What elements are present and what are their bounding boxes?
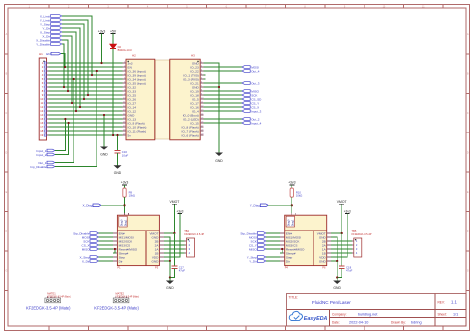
- net flag CS_Y: [242, 101, 259, 105]
- junction 5v: [112, 134, 114, 136]
- wire +3v3 to R10: [291, 185, 293, 188]
- net flag Out_2: [242, 117, 260, 121]
- wire motor 1 X: [164, 240, 185, 242]
- svg-text:1.1: 1.1: [451, 300, 457, 305]
- svg-text:X_Dir: X_Dir: [82, 259, 90, 263]
- svg-text:Out_3: Out_3: [251, 81, 260, 85]
- ground module right: [215, 153, 223, 164]
- svg-text:Diag0: Diag0: [119, 219, 123, 226]
- wire motor 1 Y: [331, 240, 352, 242]
- wire C16 to gnd: [117, 153, 119, 165]
- ground Y: [333, 278, 341, 291]
- svg-text:P4: P4: [285, 266, 289, 270]
- terminal block TB5: [352, 229, 372, 257]
- net flag Y_Step: [40, 22, 62, 26]
- junction C16: [116, 134, 118, 136]
- connector H1: [39, 52, 49, 140]
- header H3 (ESP32 right): [170, 54, 204, 140]
- wire MISO X: [99, 248, 113, 250]
- net flag X_Dir X: [82, 259, 99, 263]
- svg-text:B340A-13-F: B340A-13-F: [118, 48, 133, 52]
- net flag SCK: [242, 93, 257, 97]
- svg-text:KF2EDGK-3.5-4P: KF2EDGK-3.5-4P: [352, 232, 372, 236]
- wire Y_Dir Y: [266, 260, 280, 262]
- svg-text:GND: GND: [319, 259, 327, 263]
- net flag X_Step: [40, 30, 62, 34]
- wire Stp_Disable X: [99, 232, 113, 234]
- svg-text:GND: GND: [152, 259, 160, 263]
- svg-text:5v: 5v: [128, 133, 132, 137]
- wire H3 pin10 to flag CS_SD: [204, 98, 242, 100]
- ground C16: [114, 165, 122, 175]
- wire C16 to row19: [117, 135, 119, 151]
- wire VMOT to cap X: [173, 233, 175, 266]
- net flag Y_Disable: [36, 42, 62, 46]
- svg-text:buildlog.net: buildlog.net: [358, 313, 378, 317]
- wire reset-sleep tie Y: [280, 249, 282, 253]
- net flag Inp_Disable: [30, 165, 54, 169]
- svg-text:Date:: Date:: [332, 321, 340, 325]
- net flag Y_Limit: [40, 18, 62, 22]
- svg-text:VMOT: VMOT: [337, 200, 347, 204]
- net flag CS_X X: [82, 243, 99, 247]
- wire Input_1 riser: [55, 119, 66, 151]
- svg-text:H2: H2: [132, 54, 136, 58]
- wire Input_2 riser: [55, 123, 69, 155]
- wire H3 pin3 to flag Out_4: [204, 70, 242, 72]
- junction EN: [64, 66, 66, 68]
- connector MATE2 KF2EDGK: [113, 292, 139, 303]
- wire +5V to diode: [112, 34, 114, 45]
- wire motor 3 X: [164, 248, 185, 250]
- svg-text:10uF: 10uF: [122, 153, 129, 157]
- wire Stp_Disable Y: [266, 232, 280, 234]
- junction Y_Step: [83, 98, 85, 100]
- svg-text:VMOT: VMOT: [170, 200, 180, 204]
- net flag MOSI: [242, 65, 259, 69]
- svg-text:2022-04-10: 2022-04-10: [349, 321, 368, 325]
- net flag Input_1: [36, 149, 54, 153]
- wire MOSI Y: [266, 236, 280, 238]
- svg-text:TITLE:: TITLE:: [289, 296, 299, 300]
- net flag Y_Dir: [42, 26, 61, 30]
- junction X_Dir: [71, 102, 73, 104]
- wire X_Limit to bus: [62, 16, 92, 75]
- net flag MOSI X: [82, 235, 99, 239]
- net flag SCK X: [83, 239, 98, 243]
- junction X_Diag: [123, 204, 125, 206]
- wire H3 pin8 to flag MISO: [204, 90, 242, 92]
- title block: [287, 294, 467, 327]
- wire Out_1 riser: [55, 79, 74, 163]
- svg-text:Diag1: Diag1: [291, 219, 295, 226]
- svg-text:GND: GND: [114, 171, 122, 175]
- stepper driver P5: [280, 213, 331, 270]
- junction reset Y: [281, 248, 283, 250]
- junction GND row7: [218, 86, 220, 88]
- svg-text:10kΩ: 10kΩ: [296, 194, 302, 198]
- wire VMOT X: [164, 204, 175, 233]
- wire GND pins X: [164, 237, 170, 261]
- net flag Input_4: [242, 121, 262, 125]
- wire R9 to Diag0: [124, 197, 126, 213]
- svg-text:D: D: [467, 151, 469, 154]
- capacitor C18 47uF: [339, 266, 353, 273]
- wire X_Disable to bus: [62, 40, 68, 91]
- junction VMOT X: [173, 232, 175, 234]
- net flag CS_X: [242, 105, 259, 109]
- svg-text:FluidNC Pen/Laser: FluidNC Pen/Laser: [312, 300, 351, 305]
- net flag MISO X: [82, 247, 99, 251]
- wire X_Diag: [101, 204, 125, 206]
- svg-text:C: C: [6, 112, 8, 115]
- wire X_Dir X: [99, 260, 113, 262]
- power flag VMOT Y: [337, 200, 347, 204]
- junction Input_2: [68, 122, 70, 124]
- svg-text:GND: GND: [215, 159, 223, 163]
- wire Y_Diag: [268, 204, 292, 206]
- wire CS_Y Y: [266, 244, 280, 246]
- net flag SCK Y: [251, 239, 266, 243]
- junction Inp_Disable: [96, 70, 98, 72]
- svg-text:G: G: [5, 270, 7, 273]
- junction gnd Y: [336, 276, 338, 278]
- junction X_Limit: [91, 74, 93, 76]
- resistor R10 10k: [290, 188, 302, 198]
- net flag X_Disable: [36, 38, 62, 42]
- wire H3 pin2 to flag MOSI: [204, 66, 242, 68]
- svg-text:C: C: [467, 112, 469, 115]
- net flag Y_Dir Y: [249, 259, 266, 263]
- svg-text:KF2EDGK-3.5-4P (Mate): KF2EDGK-3.5-4P (Mate): [94, 306, 139, 311]
- svg-text:+3v3: +3v3: [288, 181, 296, 185]
- svg-text:1/1: 1/1: [453, 313, 458, 317]
- wire Y_Step Y: [266, 256, 280, 258]
- wire GND down Y: [336, 261, 338, 278]
- net flag Stp_Disable Y: [240, 231, 265, 235]
- svg-text:Input_2: Input_2: [36, 153, 46, 157]
- wire IO_1 TX0 stub: [204, 74, 206, 76]
- wire EN to row2: [61, 54, 65, 67]
- wire H3 pin6 to flag Out_3: [204, 82, 242, 84]
- wire X_Step to bus: [62, 32, 76, 111]
- wire GND H3 pin1 pin7: [204, 63, 219, 153]
- EasyEDA logo: [289, 311, 327, 322]
- wire VDD Y: [331, 214, 347, 257]
- wire SCK X: [99, 240, 113, 242]
- net flag Y_Diag: [250, 204, 268, 208]
- svg-text:Sheet:: Sheet:: [438, 312, 447, 316]
- svg-text:Drawn By:: Drawn By:: [391, 321, 406, 325]
- wire X_Dir to bus: [62, 36, 72, 103]
- junction +3v3: [100, 62, 102, 64]
- wire bus H1 to H2 rows 1-19: [49, 63, 123, 135]
- svg-text:MISO: MISO: [249, 247, 257, 251]
- svg-text:+3v3: +3v3: [344, 209, 351, 213]
- net flag X_Diag: [83, 204, 101, 208]
- svg-text:Y_Diag: Y_Diag: [250, 204, 260, 208]
- net flag Stp_Disable X: [73, 231, 98, 235]
- svg-text:GND: GND: [166, 286, 174, 290]
- junction Out_1: [73, 78, 75, 80]
- wire motor 3 Y: [331, 248, 352, 250]
- svg-text:Y_Dir: Y_Dir: [249, 259, 257, 263]
- net flag Out_3: [242, 81, 260, 85]
- junction GND row14: [103, 114, 105, 116]
- svg-text:+5V: +5V: [110, 29, 117, 33]
- module middle strip: [155, 60, 169, 139]
- wire H3 pin13 to flag Input_3: [204, 110, 242, 112]
- net flag Y_Step Y: [247, 255, 266, 259]
- wire +3v3 to R9: [124, 185, 126, 188]
- svg-text:EasyEDA: EasyEDA: [304, 316, 328, 322]
- wire H3 pin16 to flag Input_4: [204, 122, 242, 124]
- net flag Out_1: [38, 161, 55, 165]
- svg-text:KF2EDGK-3.5-4P: KF2EDGK-3.5-4P: [184, 232, 204, 236]
- svg-text:Y_Disable: Y_Disable: [36, 42, 50, 46]
- wire motor 2 Y: [331, 244, 352, 246]
- net flag CS_Y Y: [249, 243, 266, 247]
- net flag Input_2: [36, 153, 54, 157]
- stepper driver P2: [113, 213, 164, 270]
- svg-text:Inp_Disable: Inp_Disable: [30, 165, 46, 169]
- svg-text:H3: H3: [191, 54, 195, 58]
- ground X: [166, 278, 174, 291]
- wire VMOT Y: [331, 204, 342, 233]
- svg-text:G: G: [467, 270, 469, 273]
- junction GND Y: [336, 260, 338, 262]
- junction VMOT Y: [341, 232, 343, 234]
- svg-text:Dir: Dir: [286, 259, 290, 263]
- terminal block TB4: [184, 229, 204, 257]
- net flag MISO: [242, 89, 260, 93]
- junction Input_1: [64, 118, 66, 120]
- wire Inp_Disable riser: [55, 71, 97, 167]
- svg-text:X_Diag: X_Diag: [83, 204, 93, 208]
- svg-text:P1: P1: [117, 266, 121, 270]
- junction Y_Dir: [79, 106, 81, 108]
- power flag +3v3 X: [121, 181, 129, 185]
- svg-text:EN: EN: [46, 52, 50, 56]
- wire Y_Dir to bus: [62, 28, 80, 107]
- svg-text:Diag0: Diag0: [287, 219, 291, 226]
- net flag MISO Y: [249, 247, 266, 251]
- junction X_Disable: [67, 90, 69, 92]
- svg-text:MISO: MISO: [82, 247, 90, 251]
- power flag +3v3 Y: [288, 181, 296, 185]
- svg-text:GND: GND: [333, 286, 341, 290]
- wire Y_Limit to bus: [62, 20, 88, 95]
- net flag X_Limit: [40, 14, 62, 18]
- junction X_Step: [75, 110, 77, 112]
- wire GND down X: [169, 261, 171, 278]
- svg-text:Diag1: Diag1: [123, 219, 127, 226]
- net flag EN: [46, 52, 61, 56]
- resistor R9 10k: [123, 188, 135, 198]
- svg-text:bdring: bdring: [411, 321, 422, 325]
- power flag +5V: [110, 29, 117, 33]
- junction GND X: [169, 260, 171, 262]
- svg-text:IO_6 (Flash): IO_6 (Flash): [181, 133, 198, 137]
- power flag VMOT X: [170, 200, 180, 204]
- power flag +3v3 VDD X: [176, 209, 183, 213]
- junction gnd X: [169, 276, 171, 278]
- wire VDD X: [164, 214, 180, 257]
- svg-text:H1: H1: [39, 52, 43, 56]
- wire +3v3 to row1: [101, 34, 103, 63]
- wire motor 4 Y: [331, 252, 352, 254]
- svg-text:D: D: [6, 151, 8, 154]
- svg-text:Company:: Company:: [332, 313, 347, 317]
- wire MISO Y: [266, 248, 280, 250]
- wire GND row14: [103, 115, 105, 147]
- svg-text:+3v3: +3v3: [121, 181, 129, 185]
- wire Y_Disable to bus: [62, 44, 64, 87]
- svg-text:GND: GND: [100, 153, 108, 157]
- svg-text:P6: P6: [322, 266, 326, 270]
- connector MATE1 KF2EDGK: [45, 292, 71, 303]
- net flag Out_4: [242, 69, 260, 73]
- svg-text:KF2EDGK-3.5-4P (Mate): KF2EDGK-3.5-4P (Mate): [26, 306, 71, 311]
- svg-text:+3v3: +3v3: [176, 209, 183, 213]
- wire H3 pin12 to flag CS_X: [204, 106, 242, 108]
- wire GND pins Y: [331, 237, 337, 261]
- wire cap to gnd Y: [337, 268, 342, 277]
- svg-text:10kΩ: 10kΩ: [129, 194, 135, 198]
- net flag X_Step X: [80, 255, 99, 259]
- wire H3 pin9 to flag SCK: [204, 94, 242, 96]
- wire H3 pin11 to flag CS_Y: [204, 102, 242, 104]
- wire CS_X X: [99, 244, 113, 246]
- junction Y_Diag: [291, 204, 293, 206]
- title text: [289, 296, 459, 325]
- junction Y_Disable: [63, 86, 65, 88]
- header H2 (ESP32 left): [123, 54, 155, 140]
- capacitor C16 10uF: [115, 150, 129, 157]
- svg-text:P3: P3: [155, 266, 159, 270]
- capacitor C17 47uF: [172, 266, 186, 273]
- svg-text:Input_3: Input_3: [251, 109, 261, 113]
- wire motor 4 X: [164, 252, 185, 254]
- ground left: [100, 147, 108, 157]
- junction Y_Limit: [87, 94, 89, 96]
- wire IO_3 RX0 stub: [204, 78, 206, 80]
- wire reset-sleep tie X: [113, 249, 115, 253]
- diode D2 B340A-13-F: [110, 44, 132, 52]
- wire H3 pin15 to flag Out_2: [204, 118, 242, 120]
- wire X_Step X: [99, 256, 113, 258]
- wire diode to row19: [112, 49, 114, 135]
- svg-text:Out_4: Out_4: [251, 69, 260, 73]
- net flag MOSI Y: [249, 235, 266, 239]
- wire Y_Step to bus: [62, 24, 84, 99]
- net flag CS_SD: [242, 97, 262, 101]
- svg-text:Input_4: Input_4: [251, 121, 261, 125]
- svg-text:+3v3: +3v3: [98, 29, 106, 33]
- svg-text:47uF: 47uF: [179, 269, 186, 273]
- svg-text:REV:: REV:: [438, 301, 445, 305]
- wire SCK Y: [266, 240, 280, 242]
- net flag Input_3: [242, 109, 262, 113]
- svg-text:47uF: 47uF: [346, 269, 353, 273]
- wire cap to gnd X: [170, 268, 175, 277]
- junction reset X: [114, 248, 116, 250]
- net flag X_Dir: [42, 34, 61, 38]
- wire MOSI X: [99, 236, 113, 238]
- wire motor 2 X: [164, 244, 185, 246]
- power flag +3v3: [98, 29, 106, 33]
- power flag +3v3 VDD Y: [344, 209, 351, 213]
- wire R10 to Diag0: [291, 197, 293, 213]
- wire VMOT to cap Y: [341, 233, 343, 266]
- svg-text:Dir: Dir: [119, 259, 123, 263]
